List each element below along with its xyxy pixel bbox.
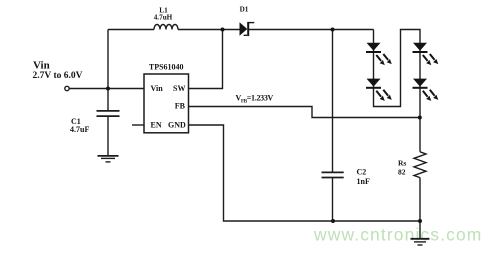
svg-text:1nF: 1nF	[357, 177, 370, 186]
svg-text:Vin: Vin	[33, 59, 50, 71]
svg-text:VFB=1.233V: VFB=1.233V	[236, 93, 274, 104]
svg-text:82: 82	[398, 168, 406, 177]
svg-text:Vin: Vin	[151, 84, 164, 93]
svg-text:Rs: Rs	[398, 159, 406, 168]
svg-text:www.cntronics.com: www.cntronics.com	[313, 225, 482, 245]
svg-text:4.7uH: 4.7uH	[154, 13, 173, 21]
svg-text:C2: C2	[357, 168, 367, 177]
svg-text:GND: GND	[168, 121, 186, 130]
svg-text:SW: SW	[173, 84, 185, 93]
svg-text:FB: FB	[175, 101, 186, 110]
svg-text:D1: D1	[240, 6, 249, 14]
svg-text:EN: EN	[151, 121, 162, 130]
svg-text:2.7V to 6.0V: 2.7V to 6.0V	[33, 71, 83, 81]
svg-text:4.7uF: 4.7uF	[70, 125, 89, 134]
svg-text:TPS61040: TPS61040	[149, 63, 184, 72]
